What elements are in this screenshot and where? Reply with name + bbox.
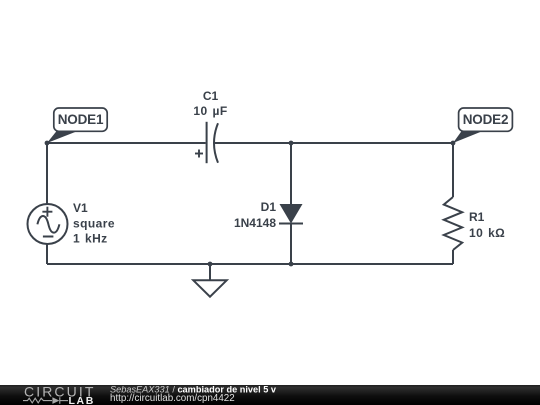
wire R1 bottom to rail (452, 250, 454, 264)
wire top left (NODE1 to C1) (47, 142, 206, 144)
node flag NODE1 (47, 108, 107, 143)
svg-text:http://circuitlab.com/cpn4422: http://circuitlab.com/cpn4422 (110, 393, 235, 404)
svg-text:1N4148: 1N4148 (234, 216, 276, 230)
wire bottom rail (47, 263, 453, 265)
node dot NODE2 (451, 141, 456, 146)
diode D1 (279, 204, 303, 224)
wire left vertical (NODE1 down to V1) (46, 143, 48, 205)
svg-text:10 kΩ: 10 kΩ (469, 226, 505, 240)
svg-text:NODE2: NODE2 (463, 112, 509, 127)
resistor R1 (444, 197, 462, 250)
wire top right (C1 to NODE2) (214, 142, 453, 144)
CircuitLab logo waveform (23, 397, 68, 404)
junction dot ground (208, 262, 213, 267)
svg-text:D1: D1 (261, 200, 277, 214)
junction dot diode bottom (289, 262, 294, 267)
wire V1 bottom to ground rail (46, 244, 48, 265)
svg-text:V1: V1 (73, 201, 88, 215)
ground (193, 264, 226, 297)
capacitor C1 (195, 122, 218, 163)
voltage source V1 (28, 204, 68, 244)
wire diode top (node to D1 anode) (290, 143, 292, 205)
node dot NODE1 (45, 141, 50, 146)
svg-text:10 µF: 10 µF (193, 104, 227, 118)
svg-text:NODE1: NODE1 (58, 112, 104, 127)
svg-text:LAB: LAB (69, 395, 95, 405)
svg-text:C1: C1 (203, 89, 219, 103)
svg-text:square: square (73, 217, 115, 231)
wire right vertical (NODE2 to R1) (452, 143, 454, 197)
footer bar (0, 385, 540, 405)
svg-text:R1: R1 (469, 210, 485, 224)
CircuitLab logo diode glyph (52, 397, 59, 404)
wire diode bottom (D1 cathode to rail) (290, 224, 292, 265)
svg-text:1 kHz: 1 kHz (73, 232, 108, 246)
node flag NODE2 (453, 108, 512, 143)
junction dot diode top (289, 141, 294, 146)
